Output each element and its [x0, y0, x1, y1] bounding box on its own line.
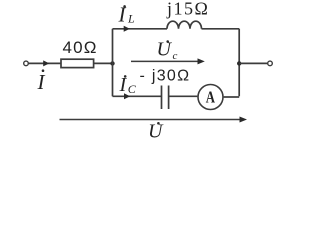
svg-text:I: I	[37, 70, 46, 94]
wire: resistor to node A	[94, 62, 113, 64]
node B junction dot	[237, 61, 241, 65]
node A junction dot	[110, 61, 114, 65]
svg-text:U: U	[148, 120, 164, 139]
svg-text:C: C	[128, 82, 137, 96]
wire: input terminal to resistor	[28, 62, 61, 64]
wire: node B to output terminal	[239, 62, 267, 64]
svg-text:L: L	[127, 12, 135, 26]
wire: capacitor to ammeter	[169, 95, 198, 97]
capacitor C1 right plate	[168, 86, 170, 110]
wire: top branch left segment	[113, 28, 168, 30]
wire: right vertical (branch merge)	[238, 29, 240, 97]
svg-text:c: c	[173, 50, 178, 62]
wire: inductor to right vertical	[202, 28, 240, 30]
wire: ammeter to right vertical	[224, 96, 240, 98]
terminal: left input	[24, 61, 29, 66]
resistor R1 40Ω body	[61, 59, 94, 67]
capacitor C1 left plate	[161, 86, 163, 110]
wire: bottom branch left segment	[113, 95, 162, 97]
current arrow I_C	[124, 93, 130, 99]
voltage arrow U_c (across parallel branches)	[131, 60, 198, 62]
svg-text:A: A	[206, 89, 215, 107]
terminal: right output	[268, 61, 273, 66]
svg-text:j15Ω: j15Ω	[166, 0, 209, 18]
svg-text:40Ω: 40Ω	[63, 38, 98, 57]
voltage arrow U (total, bottom)	[60, 119, 240, 121]
inductor L1 j15Ω coil	[167, 21, 202, 29]
svg-text:- j30Ω: - j30Ω	[140, 67, 191, 84]
current arrow I_L	[124, 26, 130, 32]
svg-text:I: I	[119, 74, 128, 96]
current arrow I	[43, 60, 49, 66]
wire: node A vertical (branch split)	[112, 29, 114, 97]
svg-text:U: U	[157, 39, 173, 61]
ammeter A1 body	[198, 85, 223, 110]
